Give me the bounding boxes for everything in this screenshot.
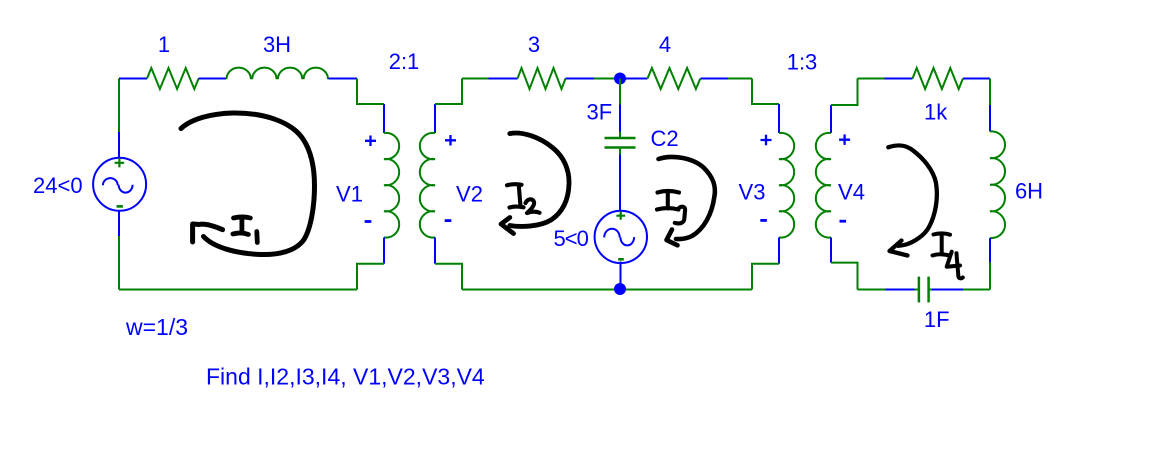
- minus V4: [840, 220, 847, 223]
- svg-text:5<0: 5<0: [554, 226, 589, 251]
- resistor R1 value 1: [147, 68, 199, 89]
- source plus: [115, 158, 125, 167]
- resistor 1k: [913, 68, 963, 89]
- wire: into node (green): [594, 78, 620, 80]
- svg-text:w=1/3: w=1/3: [125, 314, 188, 340]
- wire: lead from coil V4 bottom (blue): [830, 238, 832, 263]
- plus V3: [761, 135, 772, 146]
- wire: lead to coil V2 top (blue): [434, 104, 436, 133]
- plus V1: [365, 136, 376, 147]
- wire: lead right of R3 (blue): [566, 78, 595, 80]
- capacitor C2 value 3F: [605, 132, 636, 155]
- minus V1: [365, 220, 372, 223]
- current loop I4: [888, 145, 937, 245]
- minus V2: [445, 219, 452, 222]
- wire: bottom right segment (green): [963, 289, 990, 291]
- wire: lead left of R 1k (blue): [885, 78, 913, 80]
- wire: lead right of R 1k (blue): [963, 78, 990, 80]
- arrow I1: [193, 224, 223, 242]
- resistor R4 value 4: [648, 68, 701, 89]
- wire: lead to 6H top (blue): [989, 105, 991, 132]
- source plus 5<0: [616, 211, 625, 219]
- current loop I1: [181, 113, 315, 255]
- wire: to right step (green): [728, 78, 752, 80]
- svg-text:1k: 1k: [924, 100, 948, 125]
- wire: node to capacitor (green): [619, 79, 621, 105]
- wire: lead from coil V3 bottom (blue): [778, 238, 780, 264]
- wire: lead right of 1F (blue): [932, 289, 963, 291]
- arrow I3: [667, 230, 678, 246]
- wire: bottom step V2 (green): [435, 264, 462, 290]
- wire: bottom step from transformer (green): [357, 264, 384, 290]
- wire: top step to transformer (green): [357, 79, 384, 105]
- wire: lead between R1 and L1 (blue): [199, 78, 227, 80]
- svg-text:Find I,I2,I3,I4, V1,V2,V3,V4: Find I,I2,I3,I4, V1,V2,V3,V4: [206, 364, 485, 390]
- svg-text:2:1: 2:1: [389, 49, 420, 74]
- wire: source to bottom node (blue): [620, 262, 622, 290]
- svg-text:24<0: 24<0: [33, 173, 83, 198]
- arrow I4: [890, 241, 908, 256]
- svg-text:1: 1: [158, 32, 170, 57]
- wire: bottom of left loop (green): [119, 289, 357, 291]
- svg-text:1:3: 1:3: [787, 50, 818, 75]
- voltage source 24<0: [93, 158, 146, 211]
- svg-text:V4: V4: [838, 180, 865, 205]
- wire: right edge bottom (green): [989, 263, 991, 290]
- wire: capacitor to source (blue): [619, 155, 621, 212]
- wire: top step V3 (green): [752, 79, 779, 105]
- wire: top step V4 (green): [831, 79, 858, 106]
- wire: left vertical bottom (green): [118, 236, 120, 290]
- svg-text:3F: 3F: [587, 100, 613, 125]
- label I4: [933, 233, 963, 278]
- minus V3: [760, 219, 767, 222]
- wire: right corner down (green): [989, 79, 991, 106]
- transformer coil V2: [420, 133, 435, 238]
- plus V2: [445, 135, 456, 146]
- wire: lead to coil V3 top (blue): [778, 104, 780, 133]
- wire: lead left of 1F (blue): [886, 289, 915, 291]
- voltage source 5<0: [595, 211, 647, 263]
- label I3: [657, 191, 685, 223]
- wire: lead from 6H bottom (blue): [989, 238, 991, 263]
- source minus: [117, 205, 123, 208]
- inductor 3H: [227, 68, 329, 80]
- svg-text:4: 4: [659, 32, 671, 57]
- capacitor 1F: [915, 277, 933, 303]
- svg-text:V2: V2: [456, 182, 483, 207]
- arrow I2: [501, 218, 514, 234]
- wire: lead from source bottom (blue): [118, 211, 120, 236]
- wire: lead from coil V1 bottom (blue): [383, 238, 385, 264]
- svg-text:V1: V1: [336, 182, 363, 207]
- svg-text:3: 3: [528, 32, 540, 57]
- wire: lead from coil V2 bottom (blue): [434, 238, 436, 264]
- plus V4: [839, 134, 850, 145]
- wire: left vertical top (green): [118, 79, 120, 133]
- wire: capacitor top lead (blue): [619, 105, 621, 132]
- node top junction: [614, 73, 626, 85]
- wire: bottom step V4 (green): [831, 263, 858, 290]
- inductor 6H: [990, 131, 1005, 238]
- transformer coil V3: [779, 133, 794, 238]
- wire: bottom step V3 (green): [752, 264, 779, 290]
- wire: top left segment right loop (green): [858, 78, 885, 80]
- wire: lead right of 3H (blue): [329, 78, 358, 80]
- current loop I2: [510, 133, 569, 226]
- wire: top left segment (green): [462, 78, 489, 80]
- source minus 5<0: [618, 258, 624, 261]
- resistor R3 value 3: [518, 68, 566, 89]
- wire: lead to coil V1 top (blue): [383, 104, 385, 133]
- svg-text:V3: V3: [739, 180, 766, 205]
- wire: lead to source top (blue): [118, 132, 120, 158]
- current loop I3: [659, 157, 715, 239]
- label I2: [507, 184, 540, 213]
- wire: lead to coil V4 top (blue): [830, 105, 832, 133]
- transformer coil V1: [384, 133, 399, 238]
- svg-text:C2: C2: [650, 126, 678, 151]
- svg-text:6H: 6H: [1015, 179, 1043, 204]
- wire: lead left of R3 (blue): [489, 78, 518, 80]
- svg-text:1F: 1F: [924, 307, 950, 332]
- svg-text:3H: 3H: [263, 32, 291, 57]
- node bottom junction: [614, 283, 626, 295]
- wire: lead right of R4 (blue): [701, 78, 729, 80]
- wire: bottom left segment (green): [858, 289, 886, 291]
- wire: bottom of middle loop (green): [462, 289, 752, 291]
- wire: lead left of R4 (blue): [620, 78, 648, 80]
- wire: top step V2 (green): [435, 79, 462, 105]
- transformer coil V4: [816, 133, 831, 238]
- label I1: [233, 217, 257, 243]
- wire: top lead left of R1 (blue): [119, 78, 147, 80]
